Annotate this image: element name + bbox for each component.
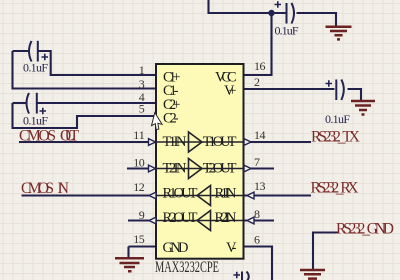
svg-text:13: 13 — [254, 179, 266, 193]
svg-text:OUT: OUT — [60, 128, 80, 145]
svg-text:C2-: C2- — [163, 111, 179, 127]
svg-text:GND: GND — [163, 240, 189, 256]
svg-text:MAX3232CPE: MAX3232CPE — [155, 259, 219, 276]
svg-text:5: 5 — [139, 102, 145, 116]
svg-text:10: 10 — [133, 156, 145, 170]
svg-text:R2IN: R2IN — [215, 210, 238, 226]
svg-text:0.1uF: 0.1uF — [23, 61, 48, 75]
svg-text:IN: IN — [58, 180, 70, 197]
svg-text:R1OUT: R1OUT — [163, 185, 198, 201]
svg-text:T2IN: T2IN — [163, 161, 188, 177]
svg-text:16: 16 — [254, 59, 266, 73]
svg-text:T1IN: T1IN — [163, 134, 188, 150]
svg-text:CMOS: CMOS — [21, 180, 54, 197]
svg-text:T1OUT: T1OUT — [203, 134, 237, 150]
svg-text:RS232_GND: RS232_GND — [336, 221, 394, 238]
svg-text:V+: V+ — [224, 83, 237, 99]
svg-text:R1IN: R1IN — [215, 185, 238, 201]
svg-text:9: 9 — [139, 208, 145, 222]
svg-text:0.1uF: 0.1uF — [23, 114, 48, 128]
svg-text:2: 2 — [254, 75, 260, 89]
svg-text:7: 7 — [254, 155, 260, 169]
svg-text:CMOS: CMOS — [19, 128, 56, 145]
svg-text:3: 3 — [139, 77, 145, 91]
svg-text:14: 14 — [254, 128, 266, 142]
svg-text:8: 8 — [254, 207, 260, 221]
svg-text:0.1uF: 0.1uF — [325, 112, 350, 126]
svg-text:0.1uF: 0.1uF — [275, 24, 299, 38]
svg-text:6: 6 — [254, 233, 260, 247]
svg-text:15: 15 — [133, 232, 145, 246]
svg-text:R2OUT: R2OUT — [163, 210, 198, 226]
svg-text:T2OUT: T2OUT — [203, 161, 237, 177]
svg-text:11: 11 — [133, 128, 145, 142]
svg-text:1: 1 — [139, 63, 145, 77]
svg-text:V-: V- — [226, 240, 237, 256]
svg-text:RS232_RX: RS232_RX — [311, 180, 359, 197]
svg-text:12: 12 — [133, 180, 145, 194]
svg-text:RS232_TX: RS232_TX — [311, 129, 360, 146]
